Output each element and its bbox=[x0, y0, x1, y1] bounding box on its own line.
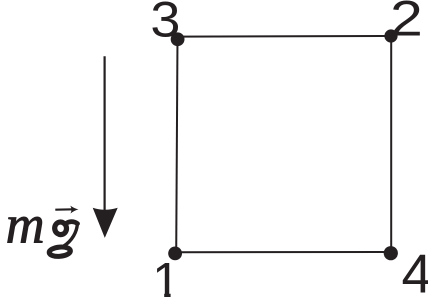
svg-text:2: 2 bbox=[390, 0, 423, 46]
vector arrow over g : shaft bbox=[55, 208, 74, 210]
node 1 dot bbox=[168, 247, 182, 261]
svg-text:3: 3 bbox=[150, 0, 180, 48]
node 4 dot bbox=[384, 246, 398, 260]
node 2 dot bbox=[384, 29, 397, 42]
node 3 dot bbox=[171, 32, 185, 46]
wire bottom edge (node 1 to node 4) bbox=[176, 251, 391, 253]
label g of mg : ear terminal bbox=[66, 222, 78, 224]
label g of mg : neck bbox=[64, 225, 78, 247]
wire top edge (node 3 to node 2) bbox=[178, 35, 392, 38]
svg-text:m: m bbox=[6, 195, 45, 255]
label g of mg : upper bowl bbox=[54, 221, 68, 236]
svg-text:4: 4 bbox=[402, 243, 428, 297]
mg force arrow shaft bbox=[103, 56, 105, 212]
mg force arrowhead bbox=[93, 208, 118, 238]
svg-text:1: 1 bbox=[152, 252, 180, 297]
label g of mg : lower loop bbox=[49, 246, 71, 257]
wire right edge (node 2 to node 4) bbox=[390, 36, 392, 252]
wire left edge (node 3 to node 1) bbox=[176, 37, 177, 253]
vector arrow over g : head bbox=[70, 206, 78, 214]
masks to remove foot serif of label 1 bbox=[146, 292, 164, 297]
